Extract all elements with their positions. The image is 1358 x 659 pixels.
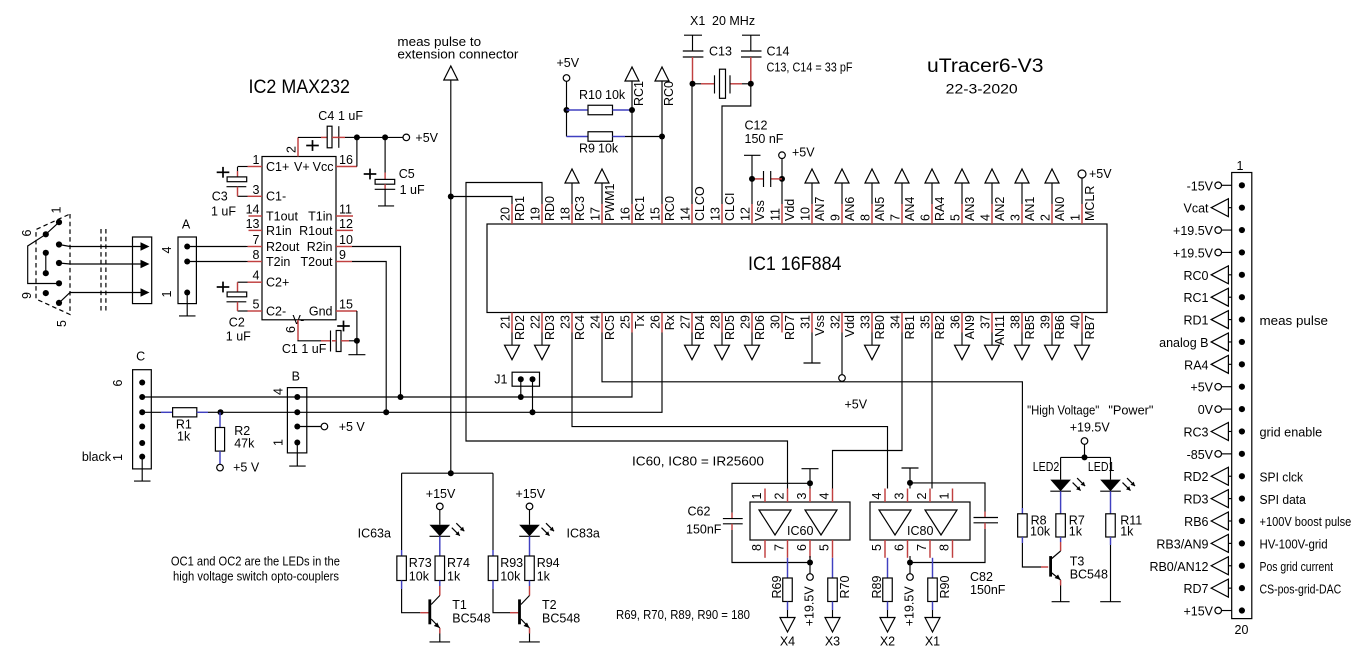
capacitor C62 150nF <box>686 483 810 562</box>
svg-text:RD1: RD1 <box>1183 314 1208 328</box>
rail T-bar at IC1 pin 12 Vss <box>744 155 761 204</box>
svg-text:RA4: RA4 <box>933 197 947 221</box>
svg-text:AN3: AN3 <box>963 197 977 221</box>
svg-text:HV-100V-grid: HV-100V-grid <box>1260 538 1328 552</box>
svg-text:15: 15 <box>339 298 353 312</box>
svg-text:black: black <box>82 450 112 464</box>
wire IC1 RD1 to meas pulse net <box>451 197 512 205</box>
crystal X1 20 MHz <box>690 14 755 98</box>
svg-text:RD2: RD2 <box>1183 470 1208 484</box>
IC1 pin 18 RC3 (top) <box>559 169 588 224</box>
svg-text:R9: R9 <box>579 142 595 156</box>
resistor R2 47k <box>215 412 259 474</box>
svg-text:8: 8 <box>859 214 873 221</box>
svg-text:20: 20 <box>1235 623 1249 637</box>
connector pin 9 RA4 <box>1184 355 1245 373</box>
svg-text:2: 2 <box>915 493 929 500</box>
bus1 wire C pin to IC1 Tx <box>142 333 632 398</box>
wire IC2 T2out to bus2 <box>352 262 389 416</box>
svg-text:C4: C4 <box>318 109 334 123</box>
svg-text:Vcat: Vcat <box>1183 202 1209 216</box>
svg-text:2: 2 <box>773 493 787 500</box>
svg-text:0V: 0V <box>1198 403 1214 417</box>
svg-text:RD7: RD7 <box>1183 582 1208 596</box>
note C13 C14 value <box>767 61 853 75</box>
svg-text:R93: R93 <box>500 556 523 570</box>
svg-text:-85V: -85V <box>1187 448 1214 462</box>
svg-text:1k: 1k <box>447 570 461 584</box>
svg-text:6: 6 <box>284 326 298 333</box>
svg-text:RB0/AN12: RB0/AN12 <box>1149 560 1208 574</box>
svg-text:C2-: C2- <box>266 305 286 319</box>
IC1 pin 11 Vdd (top) <box>769 199 798 224</box>
svg-text:R1in: R1in <box>266 224 292 238</box>
svg-text:38: 38 <box>1009 315 1023 329</box>
resistor R7 1k <box>1056 491 1085 551</box>
IC1 pin 9 AN6 (top) <box>829 169 858 224</box>
svg-text:C82: C82 <box>970 570 993 584</box>
LED LED1 Power <box>1088 457 1135 491</box>
connector pin 5 RC0 <box>1183 266 1245 284</box>
wire A pin4 to IC2 R2out <box>187 246 246 248</box>
svg-text:5: 5 <box>253 298 260 312</box>
svg-text:IC2 MAX232: IC2 MAX232 <box>249 77 351 98</box>
svg-text:34: 34 <box>889 315 903 329</box>
svg-text:C: C <box>136 349 145 363</box>
svg-text:4: 4 <box>870 493 884 500</box>
svg-text:grid enable: grid enable <box>1260 426 1323 440</box>
svg-text:6: 6 <box>919 214 933 221</box>
wire IC1 RD0 to IC60 pin 2 <box>466 183 788 489</box>
IC1 pin 27 RD4 (bottom) <box>679 313 708 360</box>
svg-text:X1: X1 <box>925 634 940 648</box>
ground at connector C <box>134 457 151 482</box>
IC2 pin 2 V+ stub <box>285 137 299 156</box>
svg-text:C62: C62 <box>688 505 711 519</box>
svg-text:R94: R94 <box>537 556 560 570</box>
svg-text:R2out: R2out <box>266 240 300 254</box>
IC1 pin 19 RD0 (top) <box>529 196 558 224</box>
svg-text:BC548: BC548 <box>452 612 490 626</box>
IC1 pin 2 AN0 (top) <box>1039 169 1068 224</box>
svg-text:RD1: RD1 <box>513 196 527 221</box>
IC1 pin 33 RB0 (bottom) <box>859 313 888 360</box>
svg-text:3: 3 <box>893 493 907 500</box>
svg-text:22: 22 <box>529 315 543 329</box>
svg-text:6: 6 <box>795 544 809 551</box>
svg-text:1 uF: 1 uF <box>400 183 425 197</box>
svg-text:6: 6 <box>111 380 125 387</box>
IC2 right pin stubs <box>336 153 357 312</box>
svg-text:R2in: R2in <box>307 240 333 254</box>
supply +5V for R10/R9 <box>557 56 580 137</box>
svg-text:1: 1 <box>750 493 764 500</box>
bus2 wire R1 to IC1 Rx <box>221 333 663 413</box>
svg-text:10k: 10k <box>500 570 521 584</box>
connector DB9 outline <box>36 214 70 315</box>
wire IC1 RC5 to R8 <box>602 333 1022 509</box>
svg-text:10k: 10k <box>598 142 619 156</box>
svg-text:RC1: RC1 <box>1183 291 1208 305</box>
svg-text:2: 2 <box>285 146 299 153</box>
svg-text:AN7: AN7 <box>813 197 827 221</box>
svg-text:19: 19 <box>529 207 543 221</box>
connector C <box>82 349 151 469</box>
svg-text:32: 32 <box>829 315 843 329</box>
IC1 pin 4 AN2 (top) <box>979 169 1008 224</box>
svg-text:"High Voltage": "High Voltage" <box>1027 404 1099 418</box>
svg-text:33: 33 <box>859 315 873 329</box>
svg-text:Vdd: Vdd <box>843 315 857 337</box>
svg-text:14: 14 <box>679 207 693 221</box>
svg-text:27: 27 <box>679 315 693 329</box>
svg-text:AN1: AN1 <box>1023 197 1037 221</box>
svg-text:+5V: +5V <box>415 131 438 145</box>
svg-text:LED2: LED2 <box>1033 460 1060 474</box>
svg-text:T2out: T2out <box>301 255 333 269</box>
net meas pulse to extension connector <box>397 35 518 473</box>
resistor R69 180 <box>770 558 795 649</box>
IC1 pin 34 RB1 (bottom) <box>889 313 918 340</box>
svg-text:7: 7 <box>889 214 903 221</box>
ground at IC1 pin 31 Vss <box>804 333 821 364</box>
capacitor C12 150 nF <box>745 119 784 188</box>
resistor R1 1k <box>142 408 223 444</box>
opto-coupler LED IC63a with T1 BC548 <box>358 473 491 642</box>
svg-text:1: 1 <box>1237 159 1244 173</box>
svg-text:RB6: RB6 <box>1053 315 1067 339</box>
svg-text:23: 23 <box>559 315 573 329</box>
wire IC1 RB2 to IC80 pin 2 <box>931 333 933 489</box>
wire DB9 pin 5 to plug <box>59 293 141 303</box>
svg-text:9: 9 <box>829 214 843 221</box>
svg-text:X2: X2 <box>880 634 895 648</box>
svg-text:RC1: RC1 <box>632 81 646 106</box>
wire IC2 R2in to bus1 <box>352 247 404 401</box>
svg-text:20: 20 <box>499 207 513 221</box>
svg-text:Tx: Tx <box>633 314 647 329</box>
IC1 pin 24 RC5 (bottom) <box>589 313 618 341</box>
ground at connector B pin1 <box>289 443 306 467</box>
svg-text:+15V: +15V <box>1183 605 1213 619</box>
IC1 pin 38 RB5 (bottom) <box>1009 313 1038 360</box>
IC1 pin 7 AN4 (top) <box>889 169 918 224</box>
svg-text:21: 21 <box>499 315 513 329</box>
connector pin 10 +5V <box>1190 381 1245 395</box>
svg-text:X4: X4 <box>780 634 795 648</box>
svg-text:RB3/AN9: RB3/AN9 <box>1156 537 1208 551</box>
svg-text:1k: 1k <box>537 570 551 584</box>
svg-text:C3: C3 <box>212 190 228 204</box>
connector pin 6 RC1 <box>1183 288 1245 306</box>
svg-text:4: 4 <box>979 214 993 221</box>
svg-text:IC1 16F884: IC1 16F884 <box>748 254 842 275</box>
capacitor C1 1 uF <box>282 321 357 356</box>
capacitor C5 1 uF <box>364 137 425 206</box>
svg-text:RB6: RB6 <box>1184 515 1208 529</box>
svg-text:150nF: 150nF <box>970 583 1006 597</box>
svg-text:RB1: RB1 <box>903 315 917 339</box>
transistor T3 BC548 <box>1049 551 1108 602</box>
svg-text:IC60, IC80 = IR25600: IC60, IC80 = IR25600 <box>632 454 764 469</box>
svg-text:3: 3 <box>253 183 260 197</box>
svg-text:Vss: Vss <box>813 315 827 336</box>
svg-text:Gnd: Gnd <box>309 305 333 319</box>
note OC1 OC2 LEDs <box>171 555 340 584</box>
svg-text:1 uF: 1 uF <box>338 109 363 123</box>
resistor R9 10k <box>567 132 663 156</box>
svg-text:-15V: -15V <box>1187 179 1214 193</box>
connector pin 3 +19.5V <box>1173 224 1245 238</box>
labels High Voltage / Power <box>1027 404 1153 418</box>
svg-text:RC4: RC4 <box>573 315 587 340</box>
resistor R70 180 <box>825 558 852 649</box>
wire DB9 pin 3 to plug <box>59 263 141 264</box>
svg-text:IC83a: IC83a <box>567 527 600 541</box>
date 22-3-2020 <box>946 82 1018 97</box>
svg-text:T1: T1 <box>452 598 467 612</box>
IC1 pin 21 RD2 (bottom) <box>499 313 528 360</box>
IC2 pin 6 V- stub <box>284 320 298 340</box>
svg-text:PWM1: PWM1 <box>603 183 617 221</box>
capacitor C82 150nF <box>910 483 1006 597</box>
svg-text:high voltage switch opto-coupl: high voltage switch opto-couplers <box>173 570 339 584</box>
supply +5V at IC1 pin 11 Vdd <box>779 146 816 205</box>
connector pin 20 +15V <box>1183 605 1245 619</box>
supply +5V at IC1 pin 32 Vdd <box>839 333 868 412</box>
svg-text:Pos grid current: Pos grid current <box>1260 560 1334 574</box>
svg-text:SPI data: SPI data <box>1260 493 1306 507</box>
svg-text:meas pulse: meas pulse <box>1260 314 1329 328</box>
svg-text:C13, C14 = 33 pF: C13, C14 = 33 pF <box>767 61 853 75</box>
svg-text:1 uF: 1 uF <box>226 330 251 344</box>
IC1 pin 16 RC1 (top) <box>619 196 648 224</box>
IC1 pin 28 RD5 (bottom) <box>709 313 738 360</box>
IC1 pin 22 RD3 (bottom) <box>529 313 558 360</box>
svg-text:11: 11 <box>339 203 352 217</box>
note R69 R70 R89 R90 = 180 <box>616 607 750 622</box>
supply +19.5V at IC80 pin 6 <box>903 556 917 626</box>
svg-text:C14: C14 <box>767 45 790 59</box>
svg-text:+5V: +5V <box>1089 167 1112 181</box>
svg-text:RB2: RB2 <box>933 315 947 339</box>
svg-text:R69: R69 <box>770 576 784 599</box>
IC1 pin 12 Vss (top) <box>739 200 768 224</box>
IC1 pin 8 AN5 (top) <box>859 169 888 224</box>
svg-text:IC63a: IC63a <box>358 527 391 541</box>
svg-text:R90: R90 <box>938 576 952 599</box>
svg-text:26: 26 <box>649 315 663 329</box>
svg-text:R73: R73 <box>409 556 432 570</box>
svg-text:RD3: RD3 <box>1183 493 1208 507</box>
svg-text:C1-: C1- <box>266 190 286 204</box>
svg-text:4: 4 <box>272 388 286 395</box>
svg-text:AN2: AN2 <box>993 197 1007 221</box>
svg-text:8: 8 <box>253 248 260 262</box>
svg-text:22-3-2020: 22-3-2020 <box>946 82 1018 97</box>
IC1 pin 6 RA4 (top) <box>919 169 948 224</box>
svg-text:RC0: RC0 <box>663 196 677 221</box>
supply +19.5V at IC60 pin 6 <box>803 556 817 626</box>
IC1 pin 40 RB7 (bottom) <box>1069 313 1098 360</box>
wire meas net tee to R73/R93 <box>402 470 493 476</box>
resistor R90 180 <box>925 558 952 649</box>
wire CLCI node to IC1 pin 13 <box>722 81 754 204</box>
cable plug with arrows <box>133 237 152 304</box>
resistor R8 10k <box>1018 508 1051 567</box>
IC IC60 IR25600 <box>750 489 850 558</box>
svg-text:RD4: RD4 <box>693 315 707 340</box>
svg-text:18: 18 <box>559 207 573 221</box>
svg-text:C1+: C1+ <box>266 160 289 174</box>
capacitor C3 1 uF <box>211 167 247 219</box>
svg-text:7: 7 <box>915 544 929 551</box>
DB9 pins <box>43 219 62 306</box>
svg-text:+19.5V: +19.5V <box>803 586 817 627</box>
svg-text:C2+: C2+ <box>266 276 289 290</box>
svg-text:25: 25 <box>619 315 633 329</box>
svg-text:C12: C12 <box>745 119 768 133</box>
svg-text:AN6: AN6 <box>843 197 857 221</box>
svg-text:6: 6 <box>20 230 34 237</box>
svg-text:RC3: RC3 <box>573 196 587 221</box>
svg-text:uTracer6-V3: uTracer6-V3 <box>927 56 1044 77</box>
svg-text:RD7: RD7 <box>783 315 797 340</box>
rail T-bar at IC80 pin 3 <box>902 468 919 489</box>
svg-text:R10: R10 <box>579 88 602 102</box>
svg-text:3: 3 <box>1009 214 1023 221</box>
svg-text:Vdd: Vdd <box>783 199 797 221</box>
svg-text:10k: 10k <box>409 570 430 584</box>
svg-text:13: 13 <box>246 217 260 231</box>
svg-text:+19.5V: +19.5V <box>903 586 917 627</box>
IC U1 IC1 16F884 body <box>487 224 1107 313</box>
svg-text:RD3: RD3 <box>543 315 557 340</box>
svg-text:36: 36 <box>949 315 963 329</box>
resistor R11 1k <box>1100 491 1142 602</box>
svg-text:RC1: RC1 <box>633 196 647 221</box>
wire DB9 pins 7-8 link <box>45 253 47 273</box>
svg-text:7: 7 <box>773 544 787 551</box>
svg-text:1: 1 <box>938 493 952 500</box>
IC1 pin 10 AN7 (top) <box>799 169 828 224</box>
svg-text:10: 10 <box>339 233 353 247</box>
connector pin 15 RD3 <box>1183 490 1305 508</box>
wire CLCO node to IC1 pin 14 <box>690 81 696 204</box>
supply +19.5V for LED1/LED2 <box>1061 421 1111 461</box>
IC1 pin 20 RD1 (top) <box>499 196 528 224</box>
wire Vcc pin16 to +5V node <box>356 137 358 166</box>
svg-text:31: 31 <box>799 315 813 329</box>
IC1 pin 36 AN9 (bottom) <box>949 313 978 360</box>
IC1 pin 26 Rx (bottom) <box>649 313 678 333</box>
svg-text:RD5: RD5 <box>723 315 737 340</box>
svg-text:Vss: Vss <box>753 200 767 221</box>
svg-text:AN5: AN5 <box>873 197 887 221</box>
wire A pin3 to IC2 T2in <box>187 261 246 263</box>
svg-text:T2: T2 <box>542 598 557 612</box>
svg-text:OC1 and OC2 are the LEDs in th: OC1 and OC2 are the LEDs in the <box>171 555 340 569</box>
connector pin 12 RC3 <box>1183 422 1322 440</box>
svg-text:AN4: AN4 <box>903 197 917 221</box>
svg-text:C2: C2 <box>229 316 245 330</box>
svg-text:R74: R74 <box>447 556 470 570</box>
svg-text:+5V: +5V <box>557 56 580 70</box>
capacitor C2 1 uF <box>217 282 251 344</box>
svg-text:5: 5 <box>818 544 832 551</box>
svg-text:AN9: AN9 <box>963 315 977 339</box>
svg-text:1: 1 <box>1069 214 1083 221</box>
IC IC80 IR25600 <box>870 489 970 558</box>
svg-text:T2in: T2in <box>266 255 290 269</box>
svg-text:6: 6 <box>893 544 907 551</box>
svg-text:5: 5 <box>949 214 963 221</box>
svg-text:7: 7 <box>253 233 260 247</box>
svg-text:MCLR: MCLR <box>1083 186 1097 221</box>
svg-text:T1in: T1in <box>308 210 332 224</box>
svg-text:+19.5V: +19.5V <box>1173 224 1214 238</box>
svg-text:BC548: BC548 <box>542 612 580 626</box>
svg-text:1k: 1k <box>1069 525 1083 539</box>
svg-text:1 uF: 1 uF <box>211 205 236 219</box>
svg-text:RD0: RD0 <box>543 196 557 221</box>
IC1 pin 31 Vss (bottom) <box>799 313 828 336</box>
svg-text:40: 40 <box>1069 315 1083 329</box>
svg-text:37: 37 <box>979 315 993 329</box>
svg-text:12: 12 <box>339 217 353 231</box>
connector pin 19 RD7 <box>1183 579 1341 597</box>
svg-text:RA4: RA4 <box>1184 358 1208 372</box>
IC IC2 MAX232 body <box>249 77 351 320</box>
svg-text:RC0: RC0 <box>1183 269 1208 283</box>
IC1 pin 35 RB2 (bottom) <box>919 313 948 340</box>
svg-text:C5: C5 <box>399 167 415 181</box>
connector pin 4 +19.5V <box>1173 246 1245 260</box>
svg-text:IC60: IC60 <box>787 524 813 538</box>
svg-text:17: 17 <box>589 207 603 221</box>
svg-text:C1 1 uF: C1 1 uF <box>282 342 327 356</box>
svg-text:+5V: +5V <box>845 398 868 412</box>
svg-text:9: 9 <box>20 292 34 299</box>
svg-text:B: B <box>292 369 300 383</box>
net RC1 arrow <box>625 67 646 204</box>
connector pin 17 RB3/AN9 <box>1156 534 1327 552</box>
net RC0 arrow <box>655 67 676 204</box>
capacitor C14 33 pF <box>741 35 789 84</box>
svg-text:+19.5V: +19.5V <box>1070 421 1111 435</box>
svg-text:+15V: +15V <box>426 487 456 501</box>
svg-text:T1out: T1out <box>266 210 298 224</box>
svg-text:CLCO: CLCO <box>693 186 707 221</box>
svg-text:4: 4 <box>253 269 260 283</box>
svg-text:10: 10 <box>799 207 813 221</box>
IC1 pin 14 CLCO (top) <box>679 186 708 224</box>
svg-text:1: 1 <box>253 153 260 167</box>
svg-text:+5V: +5V <box>1190 381 1213 395</box>
rail T-bar at IC60 pin 3 <box>802 469 819 489</box>
svg-text:+5 V: +5 V <box>339 420 366 434</box>
node +5V at IC2 Vcc <box>354 131 439 145</box>
svg-text:RC5: RC5 <box>603 315 617 340</box>
svg-text:30: 30 <box>769 315 783 329</box>
svg-text:RD6: RD6 <box>753 315 767 340</box>
LED LED2 High Voltage <box>1033 457 1085 491</box>
IC1 pin 17 PWM1 (top) <box>589 169 618 224</box>
connector A <box>160 218 196 304</box>
svg-text:8: 8 <box>750 544 764 551</box>
svg-text:11: 11 <box>769 208 783 221</box>
IC1 pin 3 AN1 (top) <box>1009 169 1038 224</box>
